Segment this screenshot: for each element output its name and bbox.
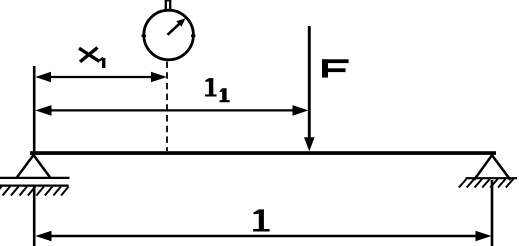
- dimension l line: [46, 235, 481, 237]
- dimension l1 line: [46, 109, 298, 111]
- dial indicator stem: [165, 0, 172, 9]
- dial needle: [168, 22, 182, 35]
- label x1: [79, 48, 104, 68]
- label l: [253, 209, 269, 231]
- dial indicator body U1: [144, 10, 194, 60]
- dashed measurement line: [166, 62, 168, 152]
- left support triangle: [17, 155, 50, 177]
- left support ground line: [0, 185, 69, 187]
- right support ground line: [466, 177, 518, 179]
- wire right extension line: [491, 180, 494, 246]
- left support base line: [0, 177, 70, 179]
- beam: [30, 151, 496, 155]
- label F: [322, 59, 349, 77]
- force F line: [308, 26, 311, 140]
- dial tick left: [142, 35, 147, 37]
- wire left extension line upper: [33, 66, 36, 152]
- dimension x1 line: [46, 76, 156, 78]
- dial tick right: [191, 35, 196, 37]
- left support hatching: [0, 187, 69, 196]
- right support hatching: [459, 179, 513, 188]
- wire left extension line lower: [33, 185, 36, 246]
- label l1: [205, 78, 230, 102]
- right support triangle: [474, 155, 511, 180]
